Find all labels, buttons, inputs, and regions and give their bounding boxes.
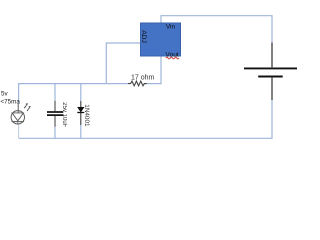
wire: left horizontal rail (LED/cap/diode top) [19,84,128,104]
battery negative plate [258,75,283,77]
wire: top rail from Vin pin to battery + [161,16,272,43]
diode lead [80,101,82,125]
battery top lead [271,43,273,68]
battery positive plate [244,67,297,69]
resistor body [128,81,147,86]
diode triangle [78,107,85,112]
LED top lead [17,104,19,113]
wire: diode top stub [80,84,82,101]
LED circle [11,111,24,124]
regulator U1 body [141,23,181,56]
wire: diode bottom stub [80,125,82,138]
LED bottom lead [17,122,19,125]
diode cathode bar [77,112,84,114]
wire: capacitor top stub [54,84,56,101]
wire: LED bottom stub [18,125,20,139]
LED emission arrow 2 [27,108,29,111]
svg-text:25v 10uF: 25v 10uF [61,102,67,127]
svg-text:<75ma: <75ma [1,98,21,105]
wire: resistor right to Vout pin [146,56,161,83]
svg-text:5v: 5v [1,91,9,98]
battery bottom lead [271,78,273,100]
wire: capacitor bottom stub [54,127,56,139]
capacitor top plate [47,111,63,113]
svg-text:Vin: Vin [166,24,176,31]
wire: ADJ riser from left rail to regulator left pin [106,43,140,84]
svg-text:1N4001: 1N4001 [83,104,90,127]
spellcheck squiggle under Vout [166,57,179,59]
wire: bottom rail from LED to battery - [19,100,272,138]
LED triangle [12,113,23,121]
svg-text:17 ohm: 17 ohm [131,74,155,81]
capacitor bottom plate [47,114,63,116]
LED cathode bar [12,121,24,123]
svg-text:ADJ: ADJ [140,30,147,43]
LED emission arrow 1 [24,105,26,108]
capacitor leads [54,101,56,127]
